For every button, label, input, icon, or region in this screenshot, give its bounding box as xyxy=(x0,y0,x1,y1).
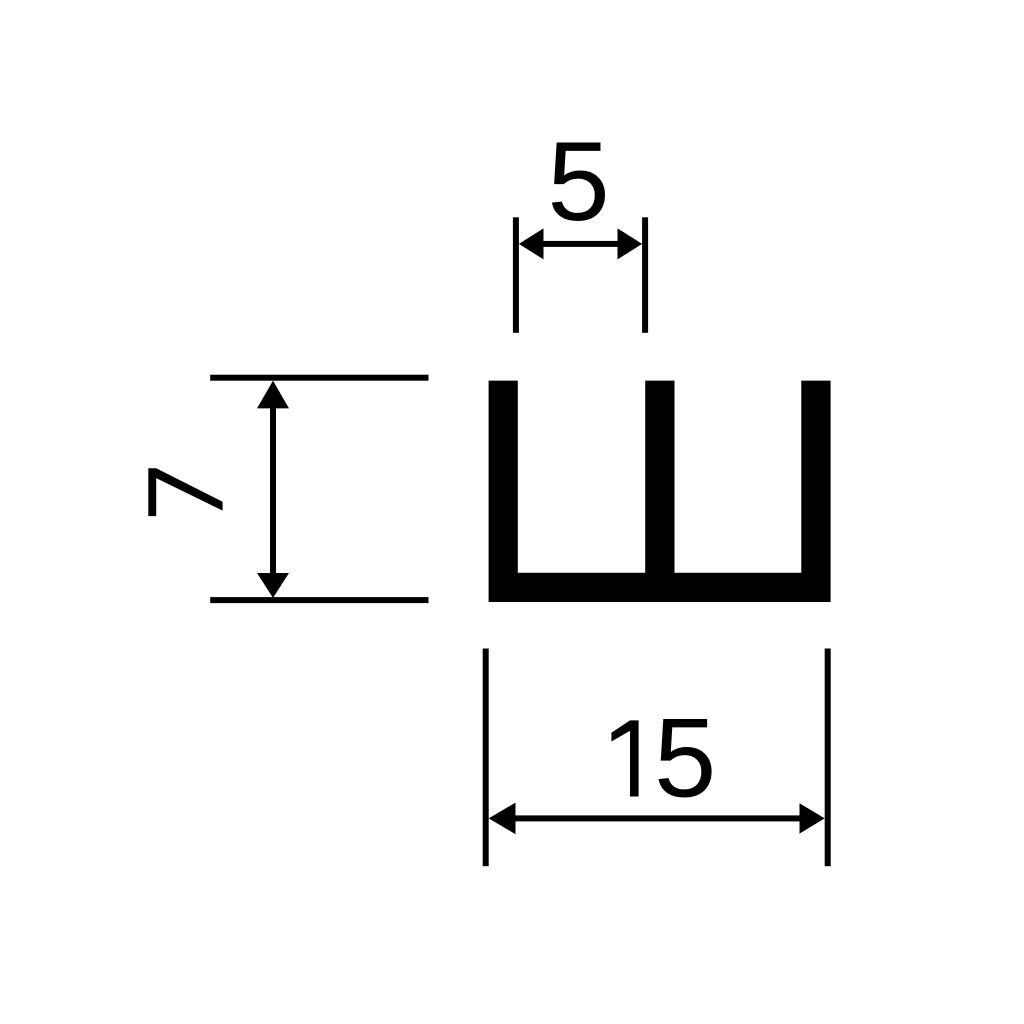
dimension 7: value label "7" (rotated 90deg CCW) xyxy=(148,468,222,516)
dimension 5: right extension line xyxy=(642,217,648,332)
svg-text:5: 5 xyxy=(654,696,716,821)
dimension 7: top extension line xyxy=(210,375,428,381)
dimension 15: right extension line xyxy=(825,649,831,867)
dimension 7: arrow line with two arrowheads xyxy=(257,381,289,598)
dimension 7: bottom extension line xyxy=(210,597,428,603)
dimension 15: left extension line xyxy=(483,649,489,867)
dimension 15: arrow line with two arrowheads xyxy=(489,803,825,835)
dimension 5: left extension line xyxy=(513,217,519,332)
dimension 5: value label "5" xyxy=(547,119,609,244)
svg-text:5: 5 xyxy=(547,119,609,244)
channel profile body (15x7 double-U extrusion cross-section) xyxy=(489,381,831,602)
dimension 15: value label "15" xyxy=(611,696,716,821)
dimension 5: arrow line with two arrowheads xyxy=(519,228,642,259)
